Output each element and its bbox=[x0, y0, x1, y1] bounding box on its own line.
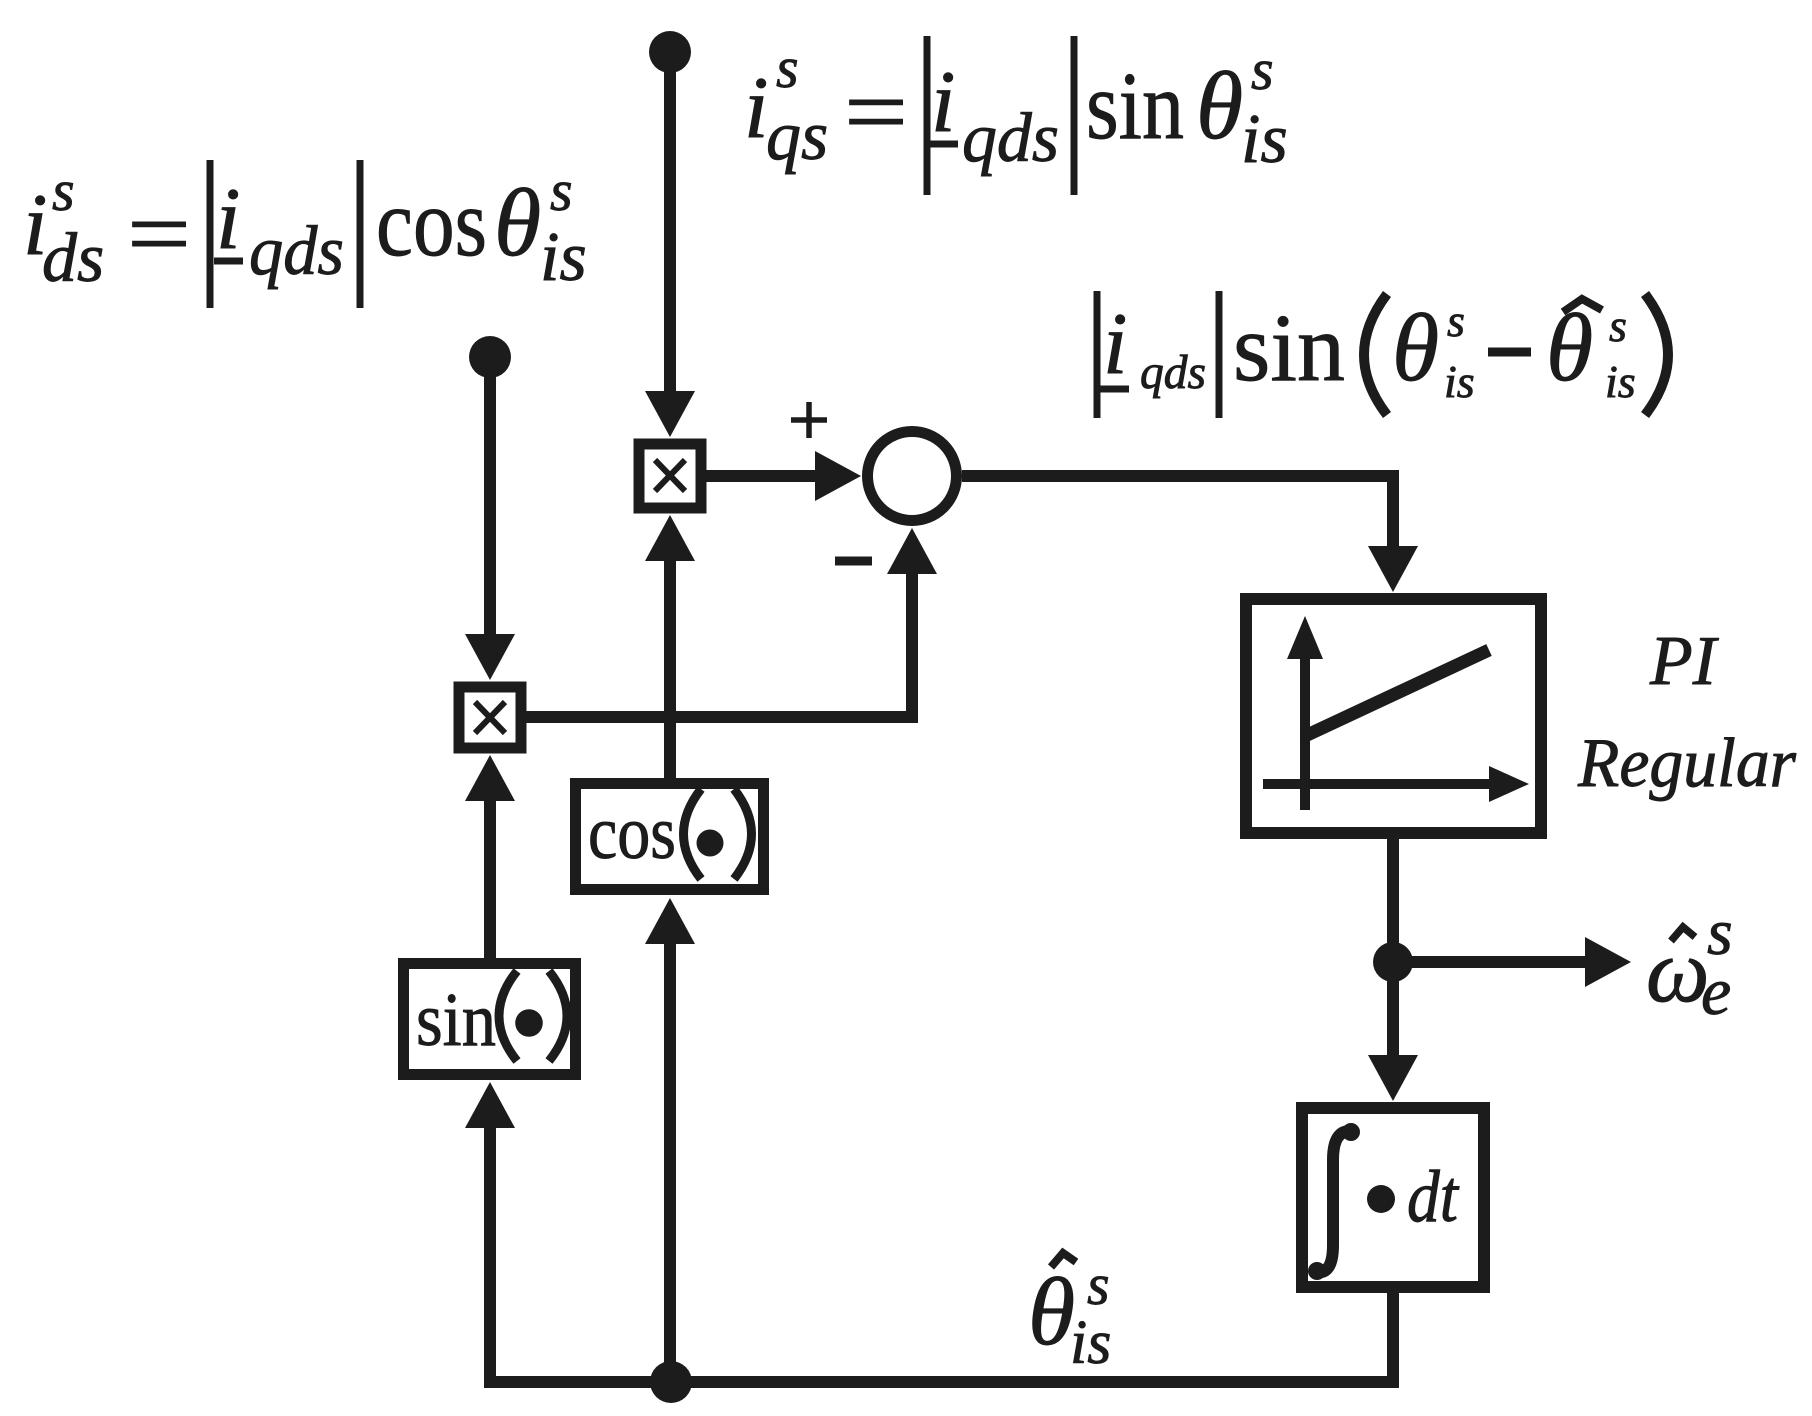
svg-text:s: s bbox=[1251, 37, 1274, 102]
svg-text:s: s bbox=[52, 158, 75, 223]
svg-text:sin: sin bbox=[1086, 52, 1184, 159]
svg-text:i: i bbox=[744, 60, 768, 157]
svg-text:dt: dt bbox=[1407, 1156, 1460, 1238]
svg-text:=: = bbox=[127, 180, 191, 287]
svg-text:sin: sin bbox=[416, 978, 496, 1062]
svg-text:e: e bbox=[1701, 953, 1731, 1029]
svg-text:ds: ds bbox=[42, 220, 104, 297]
svg-text:qds: qds bbox=[249, 213, 344, 290]
svg-text:θ: θ bbox=[494, 169, 541, 276]
svg-text:PI: PI bbox=[1649, 623, 1720, 700]
svg-text:is: is bbox=[1070, 1309, 1111, 1377]
svg-text:i: i bbox=[1103, 296, 1127, 393]
svg-text:=: = bbox=[844, 58, 908, 165]
svg-text:is: is bbox=[1444, 356, 1475, 407]
svg-text:i: i bbox=[931, 54, 955, 151]
svg-text:is: is bbox=[1241, 101, 1288, 178]
svg-text:θ: θ bbox=[1392, 294, 1439, 401]
svg-text:cos: cos bbox=[588, 791, 676, 875]
svg-text:qds: qds bbox=[1140, 346, 1206, 399]
svg-text:s: s bbox=[776, 35, 799, 100]
svg-text:s: s bbox=[1447, 295, 1465, 346]
svg-text:s: s bbox=[550, 158, 573, 223]
svg-text:s: s bbox=[1087, 1252, 1110, 1317]
svg-text:cos: cos bbox=[376, 169, 487, 276]
svg-text:qs: qs bbox=[766, 98, 828, 175]
svg-text:qds: qds bbox=[962, 100, 1059, 177]
svg-text:is: is bbox=[1605, 356, 1636, 407]
svg-text:i: i bbox=[216, 171, 240, 268]
svg-text:sin: sin bbox=[1233, 294, 1345, 401]
svg-text:θ: θ bbox=[1196, 52, 1243, 159]
svg-text:s: s bbox=[1609, 300, 1627, 351]
svg-text:θ: θ bbox=[1028, 1258, 1075, 1365]
svg-text:is: is bbox=[540, 219, 587, 296]
svg-text:Regular: Regular bbox=[1577, 725, 1797, 802]
